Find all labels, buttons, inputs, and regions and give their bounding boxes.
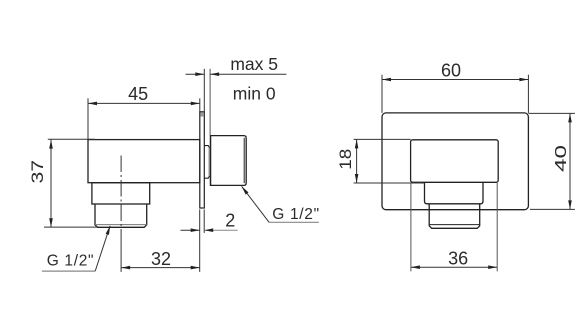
- svg-text:40: 40: [552, 145, 570, 172]
- svg-text:18: 18: [336, 149, 355, 170]
- svg-text:2: 2: [225, 211, 235, 231]
- right view: outlet hex nut front: [425, 182, 484, 204]
- svg-text:37: 37: [29, 160, 47, 184]
- svg-text:G 1/2": G 1/2": [47, 252, 94, 269]
- dimension 36 lines: [410, 183, 412, 271]
- dimension 40 lines: [528, 112, 575, 114]
- left view: outlet hex nut: [92, 183, 150, 204]
- dimension 60 lines: [381, 75, 383, 113]
- dimension 2 lines: [203, 210, 205, 233]
- dimension 32 lines: [120, 230, 122, 272]
- dimension 45 lines: [87, 98, 89, 139]
- dimension max5/min0 lines: [203, 69, 205, 112]
- dimension 37 lines: [48, 138, 95, 140]
- svg-text:45: 45: [128, 84, 148, 104]
- left view: wall plate: [200, 112, 205, 208]
- right view: elbow body front: [411, 140, 499, 183]
- svg-text:60: 60: [441, 61, 461, 81]
- svg-text:G 1/2": G 1/2": [272, 206, 319, 223]
- svg-text:max 5: max 5: [230, 54, 278, 74]
- svg-text:min 0: min 0: [233, 83, 276, 103]
- right view: wall plate front: [382, 113, 528, 210]
- svg-text:32: 32: [151, 249, 171, 269]
- right view: outlet thread front: [429, 204, 480, 229]
- dimension 18 lines: [354, 138, 411, 140]
- left view: outlet thread: [95, 204, 147, 227]
- left view: wall knob cylinder: [211, 136, 247, 186]
- left view: elbow body outline: [88, 140, 200, 183]
- svg-text:36: 36: [448, 248, 468, 268]
- left view: connector step behind plate: [204, 146, 210, 179]
- left view: outlet centerline: [120, 156, 122, 231]
